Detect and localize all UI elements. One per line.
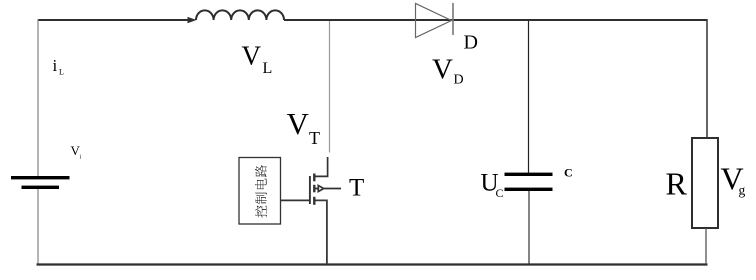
svg-text:V: V <box>287 106 310 141</box>
control circuit box <box>239 158 281 225</box>
wire capacitor branch upper <box>528 21 530 173</box>
svg-text:T: T <box>309 128 320 148</box>
capacitor C top plate <box>505 173 553 176</box>
svg-text:i: i <box>53 56 58 75</box>
battery V_i long plate <box>11 176 70 179</box>
diode D cathode bar <box>452 3 454 35</box>
control circuit text 控制电路 (rotated) <box>255 165 267 218</box>
transistor T gate bar <box>309 176 311 204</box>
capacitor C bottom plate <box>505 188 553 191</box>
transistor T channel tick body <box>313 185 315 193</box>
battery V_i short plate <box>22 186 60 189</box>
wire capacitor branch lower <box>528 191 530 264</box>
svg-text:V: V <box>242 41 262 71</box>
inductor L (V_L) <box>196 10 284 20</box>
svg-text:T: T <box>349 175 364 202</box>
wire transistor drain segment <box>314 157 328 176</box>
svg-text:g: g <box>739 183 746 198</box>
svg-text:D: D <box>454 73 464 88</box>
svg-text:L: L <box>263 60 273 77</box>
svg-text:D: D <box>464 32 478 54</box>
wire right vertical lower <box>705 228 707 264</box>
wire left vertical lower <box>37 189 39 264</box>
svg-text:R: R <box>666 166 688 202</box>
transistor T channel tick source <box>313 197 315 205</box>
wire gate lead from control box <box>281 199 310 201</box>
wire top right of inductor <box>284 19 707 21</box>
wire transistor branch upper gray <box>329 21 331 153</box>
diode D triangle <box>416 4 452 38</box>
svg-text:C: C <box>564 166 573 180</box>
wire left vertical upper <box>37 19 39 176</box>
transistor T body arrow <box>316 186 342 192</box>
svg-text:i: i <box>80 155 82 161</box>
wire top horizontal <box>38 19 188 21</box>
svg-text:C: C <box>496 186 504 200</box>
svg-text:L: L <box>59 68 64 77</box>
wire bottom horizontal <box>37 263 708 265</box>
wire transistor source segment <box>316 200 327 264</box>
current arrow on top wire <box>188 17 197 23</box>
transistor T channel tick drain <box>313 174 315 182</box>
wire right vertical upper <box>706 19 708 138</box>
resistor R body <box>692 138 718 228</box>
svg-text:V: V <box>432 54 453 86</box>
